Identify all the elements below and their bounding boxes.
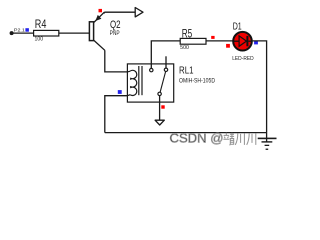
node marker blue at P2.1 — [25, 28, 29, 32]
relay pin circle common — [150, 68, 153, 71]
watermark CJK 川 — [235, 133, 244, 145]
transistor Q2 base bar — [89, 22, 93, 41]
watermark CSDN — [170, 131, 224, 146]
Q2 emitter — [94, 12, 104, 22]
wire relay switch pin to ground — [159, 96, 161, 120]
wire D1 to right earth — [252, 41, 267, 142]
wire relay coil bottom to bottom rail — [105, 96, 128, 133]
svg-text:R5: R5 — [182, 29, 193, 41]
earth ground bar 2 — [262, 141, 273, 142]
svg-text:D1: D1 — [233, 21, 242, 33]
watermark CJK 川 2 — [247, 133, 256, 145]
relay switch arm — [160, 72, 166, 93]
resistor R5 — [180, 38, 206, 44]
svg-text:100: 100 — [35, 37, 44, 43]
Q2 emitter PNP arrow — [95, 15, 101, 21]
earth ground bar 3 — [265, 145, 270, 146]
wire R4 to Q2 base — [59, 32, 89, 34]
wire P2.1 to R4 — [12, 32, 34, 34]
D1 cathode bar — [246, 36, 248, 46]
relay core lines — [138, 66, 140, 95]
relay pin circle NC — [164, 68, 167, 71]
wire Q2 emitter to arrow terminal — [104, 11, 135, 13]
node marker blue at coil bottom — [118, 90, 122, 94]
svg-text:LED-RED: LED-RED — [232, 56, 254, 62]
svg-text:Q2: Q2 — [110, 19, 121, 31]
relay NC pin stub — [165, 56, 167, 68]
ground symbol arrow — [155, 120, 164, 125]
node marker blue right of D1 — [254, 41, 258, 45]
relay RL1 box — [127, 64, 173, 102]
wire relay common up to R5 — [151, 41, 180, 69]
wire R5 to D1 — [206, 40, 233, 42]
svg-text:RL1: RL1 — [179, 65, 194, 76]
relay pin circle bottom — [158, 92, 161, 95]
terminal arrow — [135, 8, 143, 17]
wire bottom rail to earth — [105, 132, 267, 134]
relay coil winding — [127, 70, 136, 95]
LED D1 body — [233, 32, 252, 51]
svg-text:OMIH-SH-105D: OMIH-SH-105D — [179, 77, 215, 84]
svg-text:R4: R4 — [35, 19, 47, 31]
earth ground bar 4 — [266, 149, 269, 150]
wire Q2 collector down to relay coil top — [105, 50, 128, 72]
node marker red left of D1 — [226, 44, 230, 48]
Q2 collector — [94, 40, 105, 50]
svg-text:CSDN @: CSDN @ — [170, 131, 224, 146]
node marker red below relay — [161, 105, 164, 108]
D1 anode wire inside — [233, 40, 239, 42]
svg-text:PNP: PNP — [110, 31, 120, 37]
node P2.1 terminal dot — [10, 31, 14, 35]
svg-text:500: 500 — [180, 45, 189, 51]
node marker red right of R5 — [211, 36, 214, 39]
D1 cathode wire inside — [248, 40, 252, 42]
watermark CJK 靖 — [223, 133, 234, 146]
D1 diode triangle — [239, 36, 246, 46]
resistor R4 — [34, 30, 59, 36]
node marker red at Q2 emitter — [99, 9, 103, 12]
earth ground bar 1 — [258, 138, 277, 140]
